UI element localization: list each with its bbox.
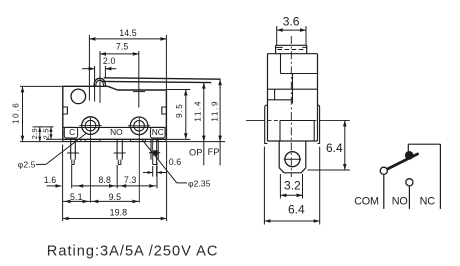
body mounting hole (upper left): [71, 89, 86, 104]
body left-edge notch: [63, 107, 68, 114]
svg-text:NO: NO: [392, 196, 408, 208]
svg-text:10.6: 10.6: [11, 102, 20, 124]
wire NC vertical: [439, 144, 441, 209]
dim 3.2 (terminal width): [280, 174, 302, 199]
dim 14.5: [89, 28, 166, 101]
datum line (mounting plane): [20, 141, 225, 143]
svg-text:9.5: 9.5: [175, 103, 184, 118]
mounting hole centerline: [246, 119, 350, 121]
wire COM: [383, 175, 385, 209]
rivet centerlines: [79, 117, 150, 203]
dim 11.4 (OP): [194, 83, 206, 166]
svg-text:2.0: 2.0: [103, 56, 116, 66]
svg-text:COM: COM: [354, 196, 379, 208]
dim 2.5: [42, 127, 62, 140]
svg-text:7.5: 7.5: [116, 42, 129, 52]
dim 7.5: [100, 42, 139, 108]
svg-text:2.5: 2.5: [42, 128, 51, 139]
switch body outline (side view): [62, 86, 166, 139]
common terminal tab (end view): [279, 141, 306, 173]
dim 2.9: [30, 127, 53, 142]
dim 2.0: [82, 56, 116, 102]
svg-text:NC: NC: [420, 196, 436, 208]
dim 3.6 (plunger width): [277, 15, 306, 46]
hinge lever arm: [101, 78, 220, 83]
svg-text:3.2: 3.2: [284, 178, 301, 192]
svg-text:φ2.35: φ2.35: [188, 178, 211, 188]
body right-edge notch: [162, 107, 167, 114]
svg-text:19.8: 19.8: [110, 207, 128, 217]
svg-text:Rating:3A/5A /250V AC: Rating:3A/5A /250V AC: [47, 243, 219, 259]
svg-text:C: C: [69, 127, 75, 137]
svg-text:14.5: 14.5: [119, 28, 137, 38]
svg-text:2.9: 2.9: [30, 128, 39, 139]
switch lever (schematic): [386, 154, 417, 170]
terminal pin C: [67, 140, 79, 165]
svg-text:6.4: 6.4: [288, 202, 305, 216]
terminal pin NO: [114, 140, 126, 165]
NO contact circle: [406, 179, 413, 186]
right mounting wing: [318, 105, 320, 143]
dim 6.4 (height): [308, 120, 351, 170]
dim 9.5 (body height): [166, 90, 190, 140]
terminal pin NC: [149, 140, 160, 165]
bottom cover strip: [63, 127, 165, 138]
svg-text:8.8: 8.8: [98, 175, 111, 185]
vertical centerline: [290, 36, 292, 177]
wire NC contact stem: [407, 144, 409, 151]
svg-text:5.1: 5.1: [70, 192, 83, 202]
terminal rivet C (circle): [82, 117, 100, 135]
plunger button (end view): [276, 45, 307, 53]
svg-text:FP: FP: [208, 147, 220, 157]
leader phi2.5: [18, 134, 86, 170]
svg-text:1.6: 1.6: [44, 175, 57, 185]
svg-text:9.5: 9.5: [109, 192, 122, 202]
svg-text:NC: NC: [152, 127, 164, 137]
svg-text:6.4: 6.4: [326, 141, 343, 155]
mounting feet: [63, 139, 167, 141]
COM pivot circle: [380, 167, 387, 174]
bottom dim row: 5.1 / 9.5: [63, 192, 140, 203]
dim 0.6 (pin thickness): [143, 157, 181, 176]
svg-text:7.3: 7.3: [124, 175, 137, 185]
svg-text:11.4: 11.4: [194, 100, 203, 122]
bottom dim 19.8: [63, 142, 167, 221]
svg-text:3.6: 3.6: [283, 15, 300, 29]
hinge tick on body top: [133, 91, 145, 93]
left mounting wing: [265, 105, 268, 143]
plunger dome: [94, 78, 106, 86]
svg-text:OP: OP: [189, 147, 202, 157]
wire NC top: [408, 143, 440, 145]
NC contact dot: [405, 151, 414, 160]
svg-text:0.6: 0.6: [169, 157, 182, 167]
dim 11.9 (FP): [210, 79, 222, 165]
terminal rivet NO (circle): [130, 117, 148, 135]
dim 6.4 (body width): [264, 147, 319, 225]
svg-text:11.9: 11.9: [210, 100, 219, 122]
bottom dim row: 1.6 / 8.8 / 7.3: [44, 145, 157, 222]
dim 10.6: [11, 86, 62, 141]
svg-text:NO: NO: [110, 127, 123, 137]
terminal hole: [284, 152, 302, 167]
wire NO: [408, 186, 410, 209]
leader phi2.35: [142, 140, 211, 189]
base block: [280, 120, 314, 141]
switch housing (end view): [268, 54, 318, 141]
svg-text:φ2.5: φ2.5: [18, 159, 36, 169]
